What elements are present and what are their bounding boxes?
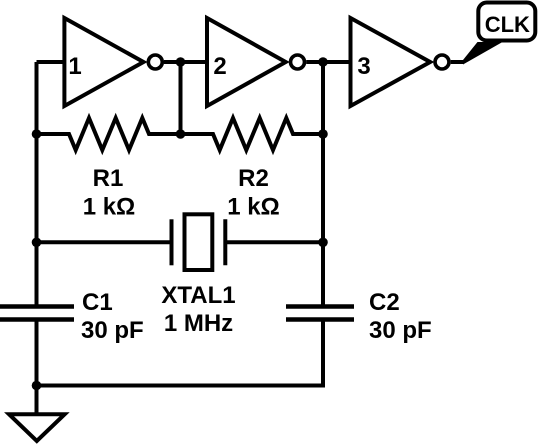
svg-text:1: 1	[68, 53, 81, 80]
resistor R2 (with leads from middle node to right rail)	[181, 118, 324, 150]
inverter U3 triangle	[351, 18, 431, 106]
svg-text:3: 3	[357, 53, 370, 80]
svg-text:2: 2	[213, 53, 226, 80]
inverter U2 triangle	[207, 18, 286, 106]
wire: crystal row left segment	[37, 240, 172, 244]
node: crystal row left junction	[32, 238, 42, 248]
wire: crystal row right segment	[225, 240, 323, 244]
svg-text:30 pF: 30 pF	[81, 317, 144, 344]
svg-text:30 pF: 30 pF	[369, 317, 432, 344]
crystal XTAL1 left electrode plate	[170, 219, 174, 265]
inverter U1 output bubble	[148, 55, 162, 69]
crystal XTAL1 body rectangle	[185, 214, 213, 270]
capacitor C2 top plate	[286, 304, 354, 309]
node: resistor row middle junction	[176, 129, 186, 139]
wire: right rail vertical (below C2) and bottom wire to left rail	[37, 320, 324, 386]
wire: input to inverter 1 from left rail	[37, 60, 67, 64]
resistor R1 (with leads from left rail to middle node)	[37, 118, 181, 150]
ground symbol triangle	[9, 414, 65, 441]
node: junction after U1 output	[176, 57, 186, 67]
svg-text:XTAL1: XTAL1	[161, 282, 235, 309]
wire: right rail vertical (down to top of C2)	[321, 62, 325, 307]
svg-text:C1: C1	[82, 289, 113, 316]
wire: U3 bubble to CLK flag	[451, 60, 464, 64]
svg-text:CLK: CLK	[485, 12, 530, 37]
wire: U2 bubble to U3 input	[306, 60, 350, 64]
capacitor C2 bottom plate	[286, 317, 354, 322]
wire: middle rail from U1 output node down to resistor row	[179, 62, 183, 134]
svg-text:C2: C2	[369, 289, 400, 316]
node: junction after U2 output	[318, 57, 328, 67]
svg-text:1 MHz: 1 MHz	[164, 310, 233, 337]
wire: left rail vertical (below C1 to bottom node)	[35, 320, 39, 386]
wedge pointer to CLK label	[463, 42, 503, 65]
wire: left rail vertical (top of C1)	[35, 62, 39, 307]
node: resistor row left junction	[32, 129, 42, 139]
svg-text:R1: R1	[93, 165, 124, 192]
svg-text:1 kΩ: 1 kΩ	[83, 194, 136, 221]
inverter U1 triangle	[64, 18, 143, 106]
inverter U3 output bubble	[435, 55, 449, 69]
node: bottom junction at ground	[32, 381, 42, 391]
wire: ground stem	[35, 386, 39, 415]
inverter U2 output bubble	[291, 55, 305, 69]
svg-text:1 kΩ: 1 kΩ	[227, 194, 280, 221]
node: crystal row right junction	[318, 238, 328, 248]
wire: U1 bubble to U2 input	[164, 60, 207, 64]
capacitor C1 bottom plate	[0, 317, 74, 322]
svg-text:R2: R2	[238, 165, 269, 192]
node: resistor row right junction	[318, 129, 328, 139]
capacitor C1 top plate	[0, 304, 74, 309]
CLK label box	[478, 3, 535, 41]
crystal XTAL1 right electrode plate	[223, 219, 227, 265]
